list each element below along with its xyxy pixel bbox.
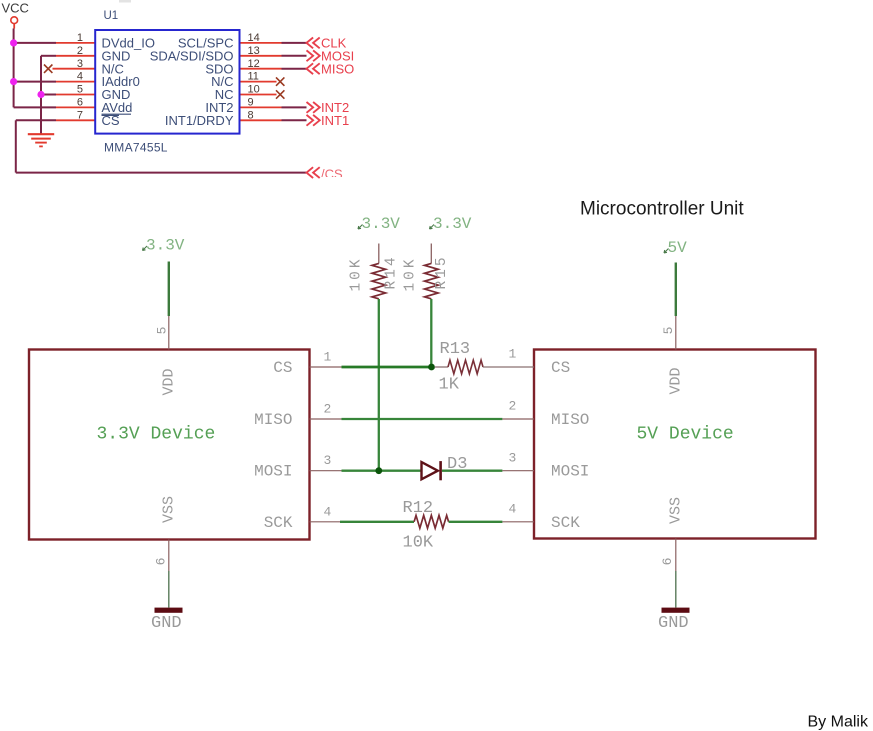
svg-text:5: 5	[77, 84, 83, 96]
svg-text:INT1/DRDY: INT1/DRDY	[165, 113, 234, 128]
device box 5V Device	[534, 350, 816, 539]
resistor R13	[448, 360, 483, 374]
wire net MOSI	[282, 55, 307, 57]
junction VCC pin1 row	[10, 39, 17, 46]
svg-text:12: 12	[248, 58, 260, 70]
svg-text:3: 3	[324, 453, 332, 468]
no-connect X pin 11	[276, 77, 284, 85]
IC left pin names	[102, 36, 155, 128]
svg-text:3.3V Device: 3.3V Device	[97, 425, 216, 445]
junction CS/R15/R13	[428, 364, 435, 371]
pin stub MOSI right device	[502, 470, 534, 472]
pin stub SCK left device	[310, 521, 341, 523]
junction MOSI/R14	[375, 467, 382, 474]
wire VCC to pin 1	[14, 42, 56, 44]
wire /CS net from pin 7	[16, 119, 56, 121]
svg-text:1K: 1K	[439, 376, 460, 395]
svg-text:VSS: VSS	[668, 497, 685, 524]
pin stub VDD right device	[675, 316, 677, 350]
svg-text:R15: R15	[434, 254, 450, 289]
bus arrow CLK	[307, 38, 320, 49]
wire net MISO	[282, 68, 307, 70]
IC left pin numbers 1-7	[77, 32, 83, 121]
svg-text:6: 6	[154, 558, 169, 566]
svg-text:11: 11	[248, 71, 259, 83]
svg-text:2: 2	[324, 402, 332, 417]
svg-text:8: 8	[248, 109, 254, 121]
wire net CLK	[282, 42, 307, 44]
svg-text:R13: R13	[440, 340, 471, 359]
svg-text:CS: CS	[551, 359, 570, 377]
svg-text:1: 1	[324, 350, 332, 365]
pin stub MISO left device	[310, 418, 342, 420]
junction GND pin5 row	[37, 91, 44, 98]
wire SCK net left	[340, 521, 414, 523]
resistor R14	[372, 263, 386, 298]
svg-text:3.3V: 3.3V	[146, 237, 185, 255]
svg-text:3.3V: 3.3V	[433, 215, 472, 233]
resistor R12	[414, 515, 448, 528]
svg-text:GND: GND	[151, 614, 182, 633]
svg-text:3.3V: 3.3V	[362, 215, 401, 233]
bus arrow INT2	[307, 102, 320, 113]
svg-text:7: 7	[77, 109, 83, 121]
svg-text:MISO: MISO	[321, 61, 354, 76]
wire VCC vertical bus	[13, 29, 15, 108]
svg-text:5: 5	[661, 327, 676, 335]
svg-text:R12: R12	[403, 499, 434, 518]
svg-text:SCK: SCK	[264, 514, 293, 532]
power symbol VCC open circle	[11, 17, 18, 24]
IC left pin stubs 1-7	[53, 43, 96, 120]
svg-text:3: 3	[77, 58, 83, 70]
IC right pin numbers 14-8	[248, 32, 260, 121]
svg-text:INT1: INT1	[321, 113, 349, 128]
pin stub VSS left device	[168, 540, 170, 572]
wire GND to pin 5	[41, 94, 56, 96]
svg-text:4: 4	[324, 504, 332, 519]
bus arrow MOSI	[307, 50, 320, 61]
svg-text:MISO: MISO	[551, 411, 589, 429]
wire MOSI net right	[442, 470, 502, 472]
IC right pin names	[150, 36, 234, 128]
svg-text:U1: U1	[104, 10, 119, 22]
stray mark (cropped text remnant)	[119, 0, 131, 3]
pin stub SCK right device	[502, 521, 534, 523]
svg-text:10: 10	[248, 84, 260, 96]
bus arrow INT1	[307, 115, 320, 126]
pin stub VSS right device	[675, 539, 677, 572]
svg-text:6: 6	[77, 97, 83, 109]
op-amp box U1 MMA7455L outline	[95, 30, 239, 134]
svg-text:2: 2	[509, 399, 517, 414]
ground symbol GND (left)	[155, 608, 183, 613]
wire /CS horizontal	[16, 172, 306, 174]
svg-text:5V: 5V	[668, 239, 688, 257]
ground symbol GND (right)	[662, 608, 690, 613]
no-connect X pin 3	[44, 65, 52, 73]
svg-text:9: 9	[248, 97, 254, 109]
pin stub MOSI left device	[310, 470, 342, 472]
svg-text:MOSI: MOSI	[254, 463, 292, 481]
wire GND net pin2 corner	[41, 55, 56, 57]
pin stub R14 top	[378, 244, 380, 264]
svg-text:MOSI: MOSI	[551, 463, 589, 481]
svg-text:SCK: SCK	[551, 514, 580, 532]
svg-text:10K: 10K	[403, 534, 434, 553]
wire VSS to GND left	[168, 571, 170, 608]
device box 3.3V Device	[29, 350, 310, 540]
svg-text:14: 14	[248, 32, 260, 44]
svg-text:GND: GND	[658, 614, 689, 633]
svg-text:5V Device: 5V Device	[637, 425, 734, 445]
svg-text:10K: 10K	[349, 256, 365, 291]
svg-text:By Malik: By Malik	[808, 714, 869, 731]
svg-text:Microcontroller Unit: Microcontroller Unit	[580, 199, 744, 220]
junction VCC pin4 row	[10, 78, 17, 85]
lead R13 right / pin stub CS right device	[483, 366, 534, 368]
wire VCC to pin 4	[14, 81, 56, 83]
svg-text:3: 3	[509, 450, 517, 465]
wire GND vertical	[40, 56, 42, 134]
svg-text:MISO: MISO	[254, 411, 292, 429]
svg-text:VSS: VSS	[161, 496, 178, 523]
wire VCC to pin 6	[14, 106, 56, 108]
pin stub CS left device	[310, 366, 342, 368]
wire MISO net	[342, 418, 503, 420]
wire R15 to CS net	[430, 299, 432, 367]
IC right pin stubs 14-8	[240, 43, 282, 120]
wire 3.3V to left device VDD	[168, 262, 170, 317]
ground symbol (top schematic)	[28, 134, 54, 146]
svg-text:R14: R14	[384, 254, 400, 289]
svg-text:CS: CS	[273, 359, 292, 377]
bus arrow /CS	[307, 167, 320, 178]
lead R13 left	[435, 366, 448, 368]
wire net INT2	[282, 106, 307, 108]
pin stub MISO right device	[502, 418, 534, 420]
svg-text:1: 1	[77, 32, 83, 44]
svg-text:VDD: VDD	[161, 368, 178, 395]
diode D3	[422, 462, 438, 479]
wire MOSI net left	[342, 470, 422, 472]
bus arrow MISO	[307, 63, 320, 74]
svg-text:VCC: VCC	[2, 1, 29, 16]
wire 5V to right device VDD	[675, 263, 677, 317]
net label /CS (clipped)	[321, 167, 343, 182]
resistor R15	[425, 263, 439, 298]
wire R14 to MOSI net	[378, 299, 380, 471]
svg-text:VDD: VDD	[668, 367, 685, 394]
pin stub VDD left device	[168, 316, 170, 350]
svg-text:2: 2	[77, 45, 83, 57]
svg-text:1: 1	[509, 347, 517, 362]
wire VSS to GND right	[675, 571, 677, 608]
svg-text:4: 4	[77, 71, 83, 83]
svg-text:5: 5	[155, 327, 170, 335]
wire /CS vertical	[15, 120, 17, 172]
no-connect X pin 10	[276, 90, 284, 98]
wire VCC stub below circle	[13, 24, 15, 29]
svg-text:13: 13	[248, 45, 260, 57]
wire net INT1	[282, 119, 307, 121]
svg-text:MMA7455L: MMA7455L	[104, 141, 168, 155]
wire CS net	[342, 366, 432, 369]
svg-text:6: 6	[660, 558, 675, 566]
wire SCK net right	[449, 521, 503, 523]
pin stub R15 top	[430, 244, 432, 264]
svg-text:4: 4	[509, 502, 517, 517]
svg-text:10K: 10K	[403, 256, 419, 291]
